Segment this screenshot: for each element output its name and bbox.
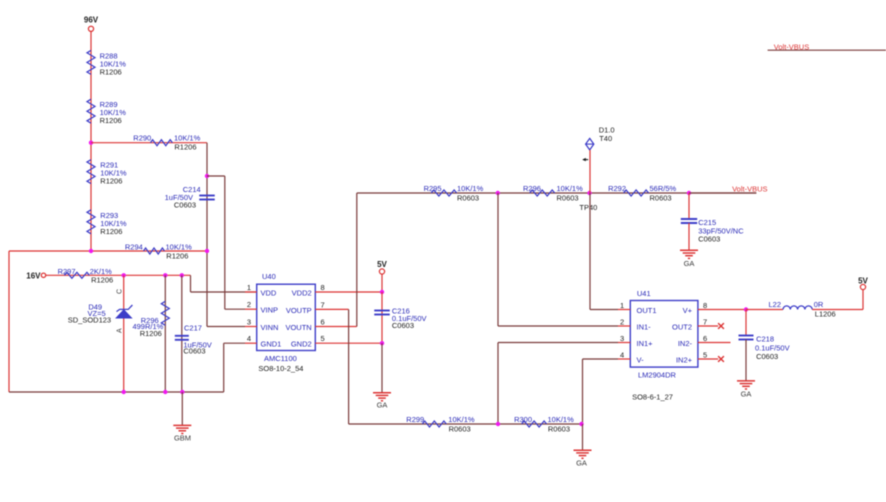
wire VOUTP dropper bbox=[348, 309, 350, 424]
svg-text:C218: C218 bbox=[756, 335, 774, 344]
svg-text:C217: C217 bbox=[184, 324, 202, 333]
resistor R290 bbox=[133, 134, 200, 152]
node 96V rail bottom junction bbox=[89, 249, 93, 253]
wire feedback bus bbox=[349, 423, 583, 425]
svg-text:5: 5 bbox=[703, 351, 707, 360]
wire R296 branch bbox=[164, 275, 166, 392]
svg-text:Volt-VBUS: Volt-VBUS bbox=[774, 43, 809, 52]
svg-text:R0603: R0603 bbox=[548, 425, 570, 434]
svg-text:R0603: R0603 bbox=[650, 194, 672, 203]
svg-text:8: 8 bbox=[321, 283, 325, 292]
svg-text:C: C bbox=[117, 289, 124, 294]
wire OUT1 riser bbox=[590, 193, 618, 310]
capacitor C217 bbox=[175, 324, 212, 356]
svg-text:R292: R292 bbox=[608, 184, 626, 193]
svg-text:R300: R300 bbox=[514, 415, 532, 424]
svg-text:SO8-6-1_27: SO8-6-1_27 bbox=[632, 393, 673, 402]
svg-text:GND1: GND1 bbox=[261, 340, 282, 349]
svg-text:0R: 0R bbox=[814, 300, 824, 309]
svg-text:R299: R299 bbox=[406, 415, 424, 424]
capacitor C214 bbox=[165, 185, 215, 209]
svg-text:Volt-VBUS: Volt-VBUS bbox=[732, 184, 767, 193]
svg-text:VINN: VINN bbox=[261, 323, 279, 332]
svg-text:C0603: C0603 bbox=[756, 352, 778, 361]
node C217 gnd junction bbox=[180, 390, 184, 394]
pin 5 GND2 bbox=[291, 334, 382, 348]
svg-text:2: 2 bbox=[247, 300, 251, 309]
resistor R293 bbox=[87, 210, 127, 236]
wire C216 branch bbox=[381, 292, 383, 343]
wire C215 branch bbox=[688, 193, 690, 219]
svg-text:VDD2: VDD2 bbox=[292, 288, 312, 297]
svg-text:GA: GA bbox=[684, 259, 695, 268]
svg-text:GA: GA bbox=[741, 389, 752, 398]
wire VOUTN riser bbox=[356, 193, 358, 327]
node D49 junction bbox=[122, 273, 126, 277]
svg-text:LM2904DR: LM2904DR bbox=[638, 371, 677, 380]
wire left loop bbox=[9, 251, 124, 392]
svg-text:R294: R294 bbox=[125, 242, 143, 251]
resistor R295 bbox=[424, 184, 484, 203]
svg-text:4: 4 bbox=[620, 351, 624, 360]
svg-text:10K/1%: 10K/1% bbox=[548, 415, 575, 424]
svg-text:A: A bbox=[117, 328, 124, 333]
svg-text:16V: 16V bbox=[26, 271, 41, 280]
svg-text:R290: R290 bbox=[133, 134, 151, 143]
svg-text:R0603: R0603 bbox=[557, 194, 579, 203]
wire VINP jog bbox=[207, 176, 245, 309]
op-amp U40 AMC1100 bbox=[257, 272, 316, 373]
wire R290 net bbox=[91, 142, 207, 144]
svg-text:GA: GA bbox=[377, 401, 388, 410]
svg-text:96V: 96V bbox=[84, 16, 99, 25]
diode D1.0 T40 bbox=[586, 126, 615, 150]
wire 16V net bbox=[46, 274, 191, 276]
node R290 tap junction bbox=[89, 141, 93, 145]
svg-text:3: 3 bbox=[620, 334, 624, 343]
svg-text:R1206: R1206 bbox=[100, 227, 122, 236]
wire R294 net bbox=[9, 250, 207, 252]
svg-text:2: 2 bbox=[620, 318, 624, 327]
wire IN1- riser bbox=[498, 193, 618, 326]
wire GND1 bus bbox=[124, 343, 246, 392]
resistor R291 bbox=[87, 160, 127, 186]
pin A anode label bbox=[117, 328, 124, 333]
wire VOUT bus bbox=[357, 192, 757, 194]
wire V+ net bbox=[746, 309, 783, 311]
node C junction bbox=[496, 422, 500, 426]
capacitor C216 bbox=[374, 307, 426, 330]
wire L22 to 5V bbox=[812, 290, 863, 310]
svg-text:6: 6 bbox=[703, 334, 707, 343]
svg-text:8: 8 bbox=[703, 301, 707, 310]
ground GA C216 bbox=[373, 343, 391, 409]
pin 8 VDD2 bbox=[292, 283, 382, 297]
svg-text:GBM: GBM bbox=[174, 434, 191, 443]
svg-text:V+: V+ bbox=[683, 306, 693, 315]
wire D49 branch bbox=[123, 275, 125, 392]
pin 7 VOUTP bbox=[286, 300, 349, 315]
svg-text:R295: R295 bbox=[424, 184, 442, 193]
wire VDD1 run bbox=[191, 275, 258, 292]
svg-text:10K/1%: 10K/1% bbox=[457, 184, 484, 193]
pin 2 VINP bbox=[245, 300, 278, 315]
svg-text:R1206: R1206 bbox=[140, 329, 162, 338]
svg-text:10K/1%: 10K/1% bbox=[174, 134, 201, 143]
node C215 junction bbox=[687, 191, 691, 195]
svg-text:SD_SOD123: SD_SOD123 bbox=[68, 316, 111, 325]
svg-text:R297: R297 bbox=[58, 267, 76, 276]
svg-text:OUT2: OUT2 bbox=[672, 322, 692, 331]
resistor R292 bbox=[608, 184, 676, 203]
svg-text:U41: U41 bbox=[637, 289, 651, 298]
svg-text:SO8-10-2_54: SO8-10-2_54 bbox=[258, 364, 303, 373]
resistor R294 bbox=[125, 242, 192, 260]
svg-text:3: 3 bbox=[247, 317, 251, 326]
svg-text:C0603: C0603 bbox=[698, 234, 720, 243]
node VDD2 junction bbox=[380, 290, 384, 294]
pin 6 VOUTN bbox=[285, 317, 356, 332]
pin 7 OUT2 no-connect bbox=[672, 318, 724, 332]
resistor R296 mid bbox=[523, 184, 583, 203]
svg-text:7: 7 bbox=[703, 318, 707, 327]
wire 5V drop bbox=[381, 274, 383, 292]
resistor R297 bbox=[58, 267, 114, 285]
node V+ C218 junction bbox=[744, 307, 748, 311]
node D49 gnd junction bbox=[122, 390, 126, 394]
wire T40 drop bbox=[589, 150, 591, 193]
pin 3 IN1+ bbox=[498, 334, 653, 348]
node GND2 junction bbox=[380, 341, 384, 345]
pin 5 IN2+ no-connect bbox=[676, 351, 724, 365]
svg-text:VOUTP: VOUTP bbox=[286, 306, 312, 315]
pin 4 GND1 bbox=[245, 334, 281, 348]
capacitor C215 bbox=[681, 218, 744, 243]
svg-text:AMC1100: AMC1100 bbox=[264, 354, 297, 363]
node R296 gnd junction bbox=[163, 390, 167, 394]
svg-text:R1206: R1206 bbox=[91, 276, 113, 285]
resistor R288 bbox=[87, 50, 126, 76]
terminal 5V U40 bbox=[377, 260, 387, 274]
resistor R289 bbox=[87, 99, 126, 125]
svg-text:5V: 5V bbox=[377, 260, 387, 269]
inductor L22 bbox=[768, 300, 835, 318]
svg-text:1: 1 bbox=[620, 301, 624, 310]
svg-text:OUT1: OUT1 bbox=[637, 306, 657, 315]
svg-text:R1206: R1206 bbox=[100, 177, 122, 186]
wire C214 branch vertical bbox=[206, 143, 208, 327]
svg-text:C0603: C0603 bbox=[174, 201, 196, 210]
ground GA R300 bbox=[574, 424, 592, 468]
svg-text:10K/1%: 10K/1% bbox=[557, 184, 584, 193]
svg-text:VDD: VDD bbox=[261, 288, 277, 297]
arrow polarity mark bbox=[582, 158, 588, 161]
svg-text:R0603: R0603 bbox=[457, 194, 479, 203]
svg-text:IN1+: IN1+ bbox=[637, 339, 654, 348]
pin 3 VINN bbox=[207, 317, 278, 332]
wire Volt-VBUS stub bbox=[689, 184, 768, 193]
wire V- dropper bbox=[582, 359, 584, 424]
ground GA C215 bbox=[680, 223, 698, 268]
svg-text:2K/1%: 2K/1% bbox=[90, 267, 112, 276]
net Volt-VBUS top right bbox=[768, 43, 886, 52]
svg-text:R0603: R0603 bbox=[449, 425, 471, 434]
ground GA C218 bbox=[737, 340, 755, 399]
svg-text:R296: R296 bbox=[523, 184, 541, 193]
svg-text:C215: C215 bbox=[698, 218, 716, 227]
svg-text:C0603: C0603 bbox=[392, 321, 414, 330]
svg-text:VINP: VINP bbox=[261, 306, 279, 315]
svg-text:1: 1 bbox=[247, 283, 251, 292]
svg-text:10K/1%: 10K/1% bbox=[166, 242, 193, 251]
op-amp U41 LM2904DR bbox=[630, 289, 698, 401]
svg-text:TP40: TP40 bbox=[579, 203, 597, 212]
svg-text:56R/5%: 56R/5% bbox=[650, 184, 677, 193]
svg-text:4: 4 bbox=[247, 334, 251, 343]
svg-text:L22: L22 bbox=[768, 300, 781, 309]
terminal 5V right bbox=[858, 276, 868, 289]
capacitor C218 bbox=[739, 310, 790, 361]
svg-text:IN1-: IN1- bbox=[637, 322, 652, 331]
node A junction bbox=[496, 191, 500, 195]
svg-text:R1206: R1206 bbox=[100, 116, 122, 125]
svg-text:IN2+: IN2+ bbox=[676, 355, 693, 364]
resistor R299 bbox=[406, 415, 475, 434]
ground GBM bbox=[173, 392, 191, 443]
svg-text:R1206: R1206 bbox=[174, 143, 196, 152]
terminal 16V bbox=[26, 271, 45, 280]
pin 1 OUT1 bbox=[618, 301, 657, 315]
svg-text:R1206: R1206 bbox=[100, 67, 122, 76]
pin 4 V- bbox=[583, 351, 645, 365]
node C214 top junction bbox=[205, 174, 209, 178]
resistor R296 bbox=[132, 301, 169, 338]
svg-text:VOUTN: VOUTN bbox=[285, 323, 311, 332]
resistor R300 bbox=[514, 415, 574, 434]
svg-text:10K/1%: 10K/1% bbox=[448, 415, 475, 424]
wire 96V rail bbox=[90, 31, 92, 251]
wire IN1+ dropper bbox=[497, 343, 499, 425]
svg-text:IN2-: IN2- bbox=[678, 339, 693, 348]
svg-text:7: 7 bbox=[321, 300, 325, 309]
node C214 bottom junction bbox=[205, 249, 209, 253]
node C217 junction bbox=[180, 273, 184, 277]
pin C cathode label bbox=[117, 289, 124, 294]
terminal 96V bbox=[84, 16, 99, 32]
svg-text:R1206: R1206 bbox=[166, 252, 188, 261]
svg-text:5: 5 bbox=[321, 334, 325, 343]
pin 6 IN2- bbox=[678, 334, 731, 348]
svg-text:GA: GA bbox=[576, 459, 587, 468]
svg-text:C0603: C0603 bbox=[183, 347, 205, 356]
pin 8 V+ bbox=[683, 301, 746, 315]
svg-text:L1206: L1206 bbox=[815, 310, 836, 319]
node D junction bbox=[579, 422, 583, 426]
svg-text:5V: 5V bbox=[858, 276, 868, 285]
node B junction TP40 bbox=[579, 191, 597, 212]
node R296 junction bbox=[163, 273, 167, 277]
svg-text:6: 6 bbox=[321, 317, 325, 326]
wire C217 branch bbox=[181, 275, 183, 392]
pin 1 VDD bbox=[245, 283, 277, 297]
svg-text:V-: V- bbox=[637, 355, 645, 364]
svg-text:U40: U40 bbox=[262, 272, 276, 281]
pin 2 IN1- bbox=[618, 318, 651, 332]
svg-text:T40: T40 bbox=[599, 134, 612, 143]
diode D49 bbox=[68, 303, 133, 325]
svg-text:GND2: GND2 bbox=[291, 340, 312, 349]
